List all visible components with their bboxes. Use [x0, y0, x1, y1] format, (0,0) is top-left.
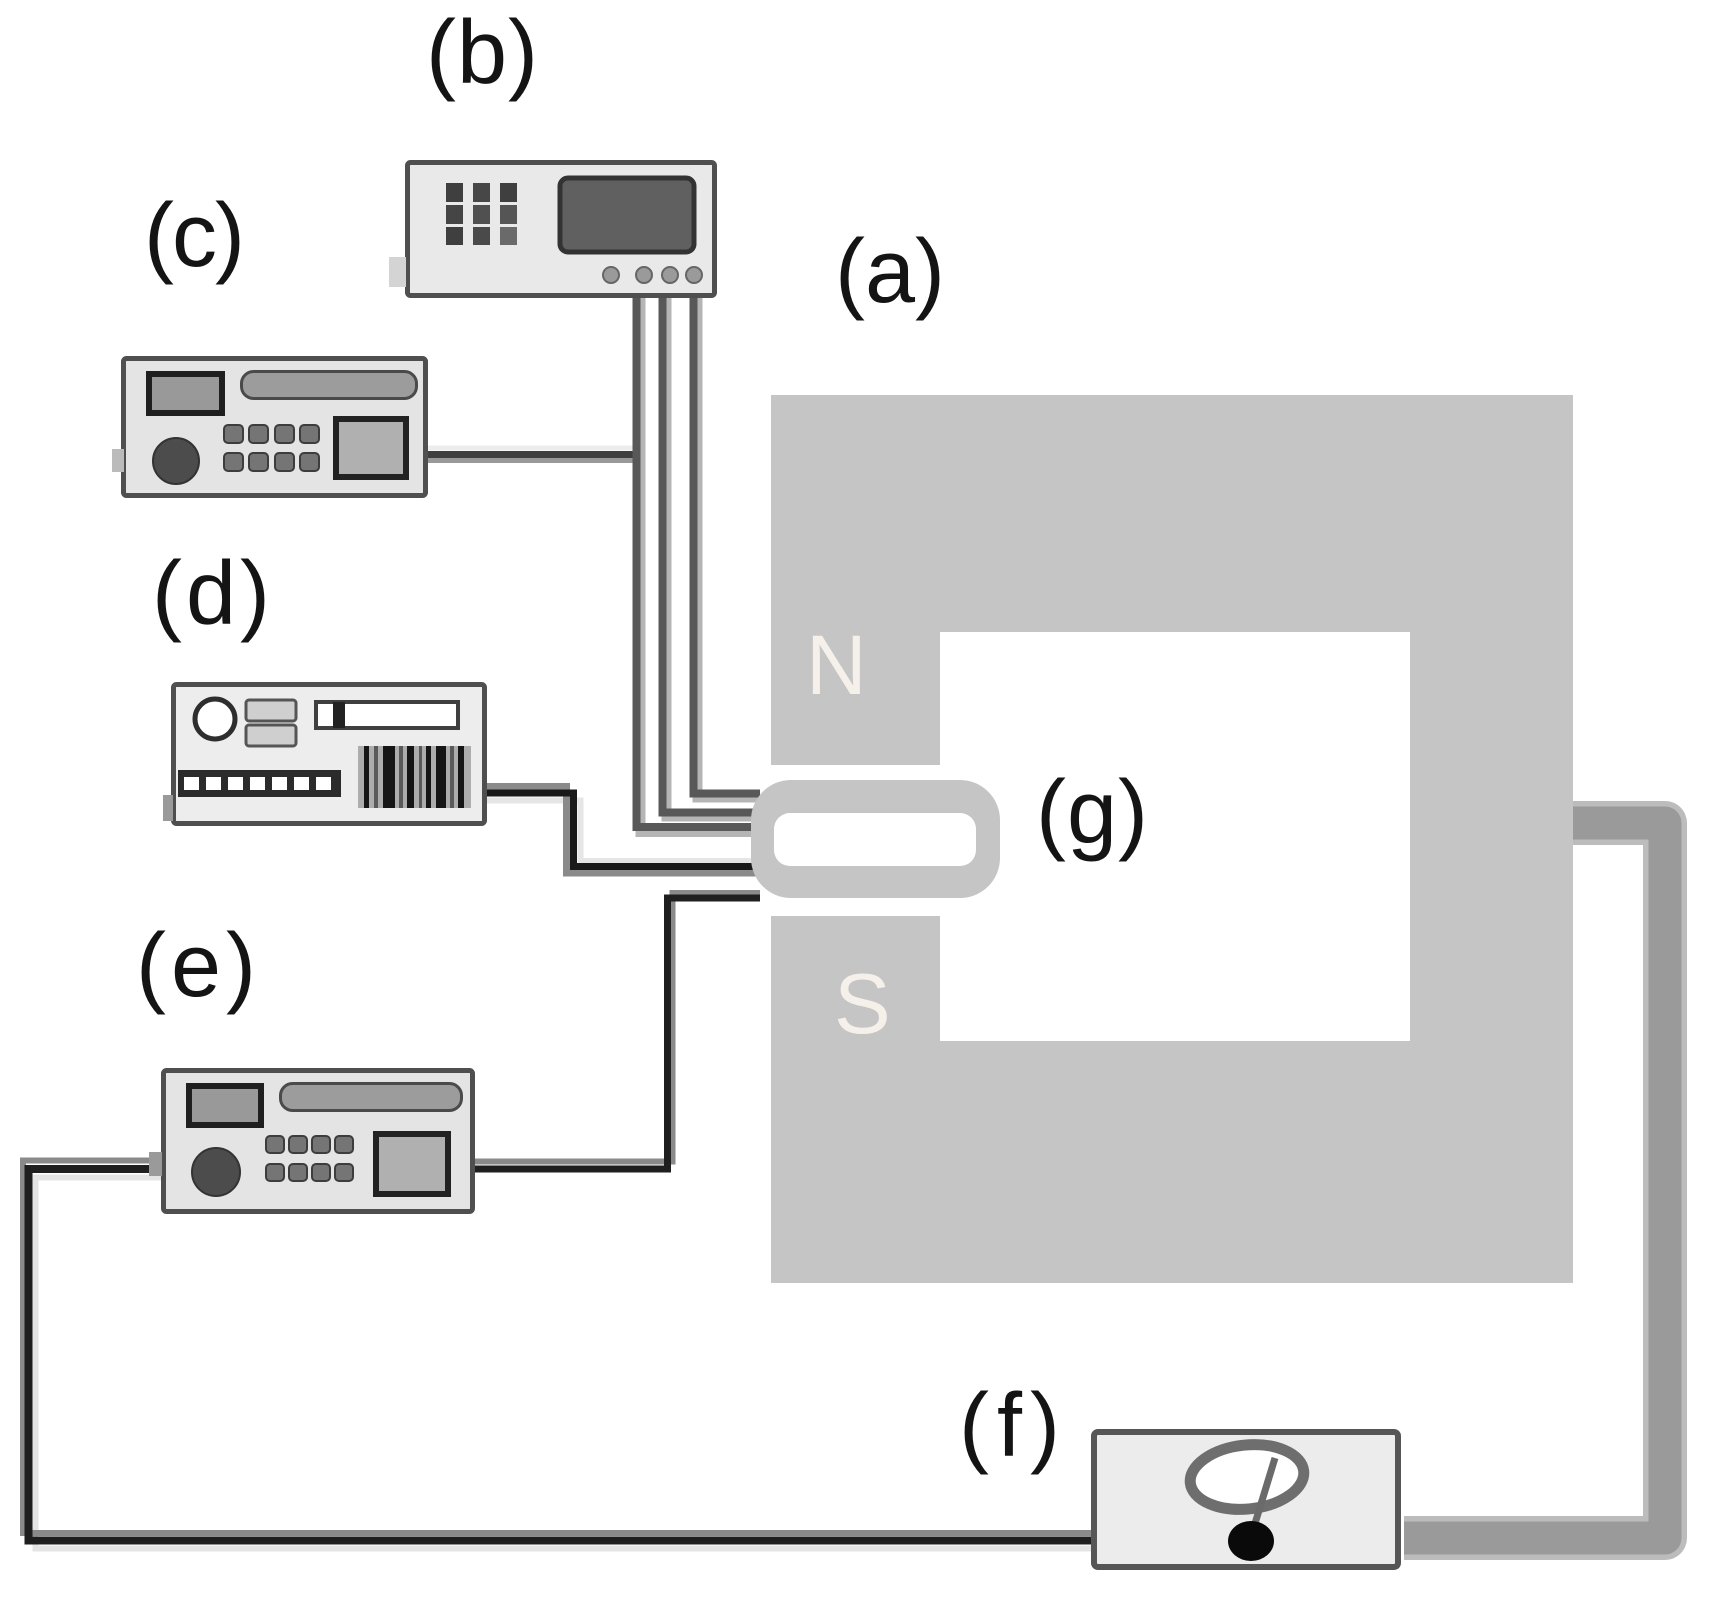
wire 3 from (b) to sample holder [694, 298, 761, 798]
instrument (d) stacked buttons [246, 700, 296, 746]
svg-text:(d): (d) [152, 544, 274, 644]
instrument (e) bottom-right square [376, 1134, 448, 1194]
wire from sample holder down to (e) [475, 893, 760, 1169]
instrument (c) bottom-right square [336, 419, 406, 477]
instrument (e) top bar [281, 1084, 462, 1111]
electromagnet yoke (a) gray body [771, 395, 1573, 1283]
wire from (d) to sample holder [487, 787, 760, 874]
svg-text:N: N [806, 618, 867, 712]
thick gray wire from magnet to meter (f) [1404, 823, 1665, 1538]
instrument (c) display [149, 374, 222, 413]
instrument (d) dip switch row [178, 770, 341, 797]
instrument (e) knob [192, 1148, 240, 1196]
instrument (b) display [560, 178, 694, 252]
instrument (c) top bar [242, 372, 417, 399]
instrument (e) button rows [266, 1136, 353, 1181]
instrument (d) slider bar [316, 702, 458, 728]
svg-text:(b): (b) [426, 3, 539, 103]
instrument (d) knob [195, 699, 235, 739]
instrument (e) display [189, 1086, 261, 1125]
svg-text:(e): (e) [136, 916, 261, 1016]
instrument (d) box [163, 685, 485, 824]
instrument (e) box [149, 1071, 473, 1212]
meter (f) box [1094, 1432, 1398, 1567]
svg-text:(f): (f) [959, 1376, 1068, 1476]
instrument (b) keypad [446, 183, 517, 245]
svg-text:(a): (a) [835, 222, 945, 322]
instrument (d) barcode panel [358, 746, 471, 808]
wire loop from (e) left side to meter (f) [23, 1161, 1091, 1549]
instrument (b) connector dots [603, 267, 702, 283]
meter (f) gauge face [1187, 1439, 1307, 1530]
instrument (c) knob [153, 438, 199, 484]
svg-text:(g): (g) [1036, 763, 1149, 863]
meter (f) terminal dot [1228, 1521, 1274, 1561]
wire 1 from (b) to sample holder [637, 298, 761, 832]
svg-text:S: S [834, 957, 891, 1052]
wire from (c) to bundle [428, 448, 640, 461]
sample holder capsule (g) between poles [751, 780, 1000, 898]
svg-text:(c): (c) [144, 186, 243, 286]
instrument (c) button rows [224, 425, 319, 471]
wire 2 from (b) to sample holder [663, 298, 761, 817]
instrument (b) box [389, 163, 715, 296]
instrument (c) box [112, 359, 426, 496]
